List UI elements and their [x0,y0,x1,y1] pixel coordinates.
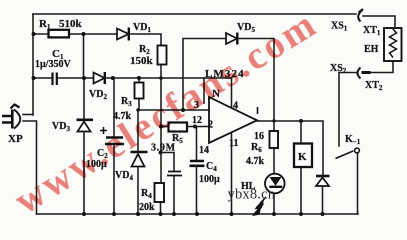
capacitor C2 plus sign [100,127,107,134]
wire VD2 row [84,77,232,79]
wire EH to XT2 [371,61,393,73]
svg-text:XS1: XS1 [331,21,348,33]
svg-text:VD1: VD1 [133,22,151,34]
resistor R4 [155,183,165,202]
wire left rail [32,14,34,115]
wire switch to rail [357,153,359,214]
wire VD4 branch [137,110,139,214]
resistor R3 [135,83,144,99]
svg-text:XS2: XS2 [330,63,347,75]
relay K box [294,144,312,168]
svg-text:EH: EH [364,44,379,55]
connector XS1 barb [359,9,364,13]
resistor R1 [49,30,70,38]
plug XP bar [11,110,14,129]
svg-text:XT2: XT2 [365,80,383,92]
op-amp N triangle [209,97,257,143]
wire R3 branch [138,78,140,110]
connector XS2 arc [358,68,361,79]
wire XP lower link [23,121,37,214]
svg-text:R4: R4 [141,188,152,200]
svg-text:VD2: VD2 [89,89,107,101]
wire bottom rail [37,213,359,215]
LED HL circle [265,174,285,194]
svg-text:XT1: XT1 [363,25,381,37]
capacitor C4 polarized [190,161,205,166]
capacitor C1 [53,73,57,86]
resistor R2 [158,46,167,65]
svg-text:16: 16 [254,131,264,142]
wire XP upper link [23,114,33,116]
wire R4 branch [160,202,162,214]
svg-text:R3: R3 [121,96,132,108]
svg-text:XP: XP [8,133,23,145]
connector XS1 arc [358,10,362,22]
capacitor C2 polarized [105,138,124,145]
connector XT2 blade [362,71,371,74]
wire XS2 lead down [338,73,340,147]
wire VD5 feedback right [239,39,275,132]
wire VD5 feedback left [183,39,226,111]
switch K-1 arm [336,151,354,159]
wire relay branch [300,121,302,214]
wire R1-right to C1-right vertical [83,34,85,78]
wire XS2 row [339,72,356,74]
wire pin4 and N box [204,78,232,108]
svg-text:510k: 510k [59,18,83,30]
plug XP prongs [2,116,11,123]
wire pin11 [231,132,233,214]
svg-text:1μ/350V: 1μ/350V [35,59,71,70]
svg-text:C4: C4 [206,161,217,173]
capacitor C3 [167,172,182,176]
svg-text:VD4: VD4 [115,170,133,182]
wire R1 row [33,34,161,46]
resistor R5 [169,123,188,132]
svg-text:K−1: K−1 [345,134,361,146]
wire output row [257,121,323,175]
svg-text:20k: 20k [139,202,155,213]
svg-text:14: 14 [199,145,209,156]
wire VD3 branch [83,78,85,214]
zener VD3 [77,120,94,132]
LED HL cathode bar [269,186,282,188]
diode VD5 [226,33,237,45]
wire pin3 input [138,109,209,111]
wire R2 chain vertical [160,65,162,183]
wire C2 branch [113,78,115,214]
wire C4 branch [196,127,198,215]
resistor R6 [270,131,279,148]
svg-text:4: 4 [233,101,238,112]
switch K-1 contact circle [355,148,360,153]
wire flyback diode lower [322,187,324,215]
svg-text:R6: R6 [251,142,262,154]
svg-text:K: K [298,151,307,163]
wire XT1 to EH [363,16,395,28]
svg-text:ybx8.cn: ybx8.cn [228,187,276,203]
svg-text:150k: 150k [130,55,154,67]
plug XP arc [14,110,20,129]
LED HL triangle [270,177,282,186]
plug XP tick [11,105,20,109]
svg-text:4.7k: 4.7k [246,156,265,167]
wire C3 branch [161,153,175,215]
svg-text:R1: R1 [39,18,51,31]
heater EH box [384,28,402,61]
diode VD4 [131,152,148,167]
svg-text:2: 2 [208,120,213,131]
svg-text:11: 11 [229,138,238,149]
svg-text:100μ: 100μ [199,174,220,185]
svg-text:VD3: VD3 [52,121,70,133]
wire R5 row pin2 [161,126,209,128]
op-amp pin1 tick [257,107,259,114]
wire top rail [33,13,356,15]
heater EH zigzag [390,29,397,58]
diode VD1 [117,28,129,41]
LED arrows [254,197,266,215]
wire R6 to LED [273,148,275,214]
diode VD2 [94,72,105,84]
wire C1 row [33,77,84,79]
flyback diode [316,176,330,186]
